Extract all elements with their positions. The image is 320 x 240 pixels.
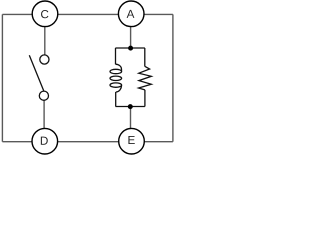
wire top rail (C to A and to outer corners) (2, 13, 173, 15)
wire resistor branch top lead (144, 48, 146, 66)
wire top rail of parallel network (115, 47, 144, 49)
wire inductor branch top lead (115, 48, 117, 64)
wire right rail vertical (172, 14, 174, 141)
junction dot top (128, 46, 133, 51)
wire bottom rail (D to E and to outer corners) (2, 141, 173, 143)
node D (32, 128, 58, 154)
resistor (right branch of parallel network) (139, 66, 152, 90)
switch bottom contact (39, 91, 48, 100)
wire node A to top junction (130, 26, 132, 48)
wire bottom junction to node E (130, 107, 132, 131)
node E (119, 128, 145, 154)
node C (32, 1, 58, 27)
wire switch bottom contact to node D (43, 96, 45, 130)
wire node C to switch top contact (44, 26, 46, 60)
wire resistor branch bottom lead (144, 90, 146, 107)
node A (118, 1, 144, 27)
switch top contact (40, 55, 49, 64)
junction dot bottom (128, 104, 133, 109)
inductor (left branch of parallel network) (110, 64, 122, 92)
wire inductor branch bottom lead (115, 92, 117, 107)
wire bottom rail of parallel network (116, 106, 145, 108)
switch lever (open, between C and D) (29, 55, 43, 91)
wire left rail vertical (1, 14, 3, 141)
